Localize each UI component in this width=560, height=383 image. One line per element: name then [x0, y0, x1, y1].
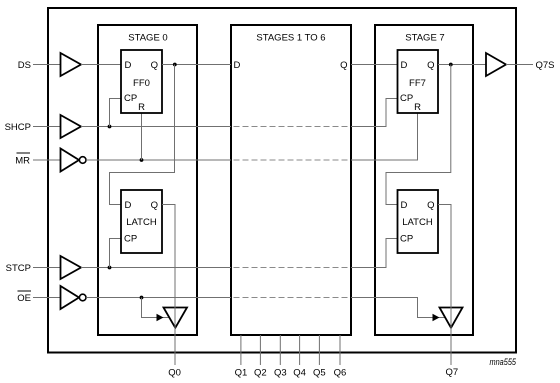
wire FF0 Q to latch0 D [110, 65, 175, 205]
flip-flop FF7 [398, 50, 439, 113]
svg-text:LATCH: LATCH [126, 217, 157, 228]
junction MR to FF0 R [140, 158, 144, 162]
wire Q2 output [259, 335, 261, 365]
svg-text:D: D [125, 60, 132, 71]
svg-text:CP: CP [124, 234, 137, 245]
wire Q3 output [279, 335, 281, 365]
svg-text:DS: DS [18, 60, 31, 71]
wire OE to stage7 output buffer [351, 298, 445, 322]
svg-text:Q: Q [427, 200, 434, 211]
svg-text:MR: MR [15, 156, 30, 167]
svg-text:STAGES 1 TO 6: STAGES 1 TO 6 [256, 33, 325, 44]
wire STCP dashed through stages [234, 267, 351, 269]
junction FF7 Q [449, 63, 453, 67]
svg-text:OE: OE [17, 293, 31, 304]
svg-text:D: D [401, 60, 408, 71]
svg-text:Q2: Q2 [254, 368, 267, 379]
wire Q4 output [299, 335, 301, 365]
wire latch7 Q to Q7 output [438, 205, 451, 366]
wire SHCP to FF0 CP [110, 99, 122, 127]
output buffer stage0 (3-state) [164, 308, 188, 328]
svg-text:mna555: mna555 [490, 357, 517, 368]
latch LATCH7 [398, 190, 439, 253]
svg-text:STAGE 0: STAGE 0 [128, 33, 167, 44]
wire DS buffer to FF0 D [81, 64, 121, 66]
wire Q1 output [240, 335, 242, 365]
outer block boundary [48, 8, 516, 353]
svg-text:Q7S: Q7S [536, 60, 555, 71]
svg-text:D: D [234, 60, 241, 71]
svg-text:R: R [414, 102, 421, 113]
wire FF7 Q to Q7S buffer [438, 64, 486, 66]
wire SHCP lead-in [33, 126, 61, 128]
node OE label [17, 291, 31, 304]
flip-flop FF0 [121, 50, 162, 113]
wire latch0 Q to Q0 output [162, 205, 175, 366]
svg-text:Q1: Q1 [235, 368, 248, 379]
latch LATCH0 [121, 190, 162, 253]
svg-text:CP: CP [400, 234, 413, 245]
svg-text:R: R [138, 102, 145, 113]
junction SHCP to FF0 CP [108, 125, 112, 129]
wire OE lead-in [33, 297, 61, 299]
wire MR dashed through stages [234, 159, 351, 161]
inverter OE input [61, 286, 86, 309]
svg-text:Q0: Q0 [168, 368, 181, 379]
junction OE to stage0 output buffer [140, 296, 144, 300]
svg-text:FF0: FF0 [133, 78, 150, 89]
stages 1 to 6 box [231, 25, 351, 335]
svg-text:STCP: STCP [6, 263, 31, 274]
svg-text:Q: Q [151, 200, 158, 211]
wire STCP to latch7 CP [351, 239, 398, 268]
inverter MR input [61, 149, 86, 172]
svg-text:STAGE 7: STAGE 7 [405, 33, 444, 44]
junction STCP to latch0 CP [108, 266, 112, 270]
buffer STCP input [61, 256, 82, 279]
output buffer stage7 (3-state) [440, 308, 463, 328]
stage 0 box [98, 25, 197, 335]
svg-text:Q: Q [340, 60, 347, 71]
buffer DS input [61, 53, 82, 76]
wire STCP lead-in [33, 267, 61, 269]
svg-text:Q7: Q7 [446, 367, 459, 378]
wire SHCP to FF7 CP [351, 99, 398, 127]
wire OE enable to stage0 output buffer [142, 298, 170, 322]
wire stages Q to FF7 D [351, 64, 398, 66]
junction FF0 Q [173, 63, 177, 67]
wire Q7S lead-out [506, 64, 533, 66]
wire STCP to latch0 CP [110, 239, 122, 268]
wire MR lead-in [33, 159, 61, 161]
wire FF7 Q to latch7 D [386, 65, 451, 205]
wire Q6 output [339, 335, 341, 365]
wire DS lead-in [33, 64, 61, 66]
buffer SHCP input [61, 115, 82, 138]
wire SHCP dashed through stages [234, 126, 351, 128]
svg-text:Q3: Q3 [274, 368, 287, 379]
svg-text:Q5: Q5 [313, 368, 326, 379]
svg-text:Q4: Q4 [293, 368, 306, 379]
wire STCP line to stages box [81, 267, 231, 269]
svg-text:SHCP: SHCP [5, 122, 31, 133]
svg-text:D: D [401, 200, 408, 211]
wire FF0 R to MR line [141, 113, 143, 160]
node MR label [15, 153, 30, 167]
svg-text:D: D [125, 200, 132, 211]
wire Q5 output [318, 335, 320, 365]
wire FF0 Q to stages box D [162, 64, 231, 66]
svg-text:LATCH: LATCH [402, 217, 433, 228]
svg-text:Q: Q [427, 60, 434, 71]
wire OE line to stages box [86, 297, 231, 299]
svg-text:Q6: Q6 [334, 368, 347, 379]
svg-text:FF7: FF7 [409, 78, 426, 89]
svg-text:CP: CP [124, 93, 137, 104]
svg-text:Q: Q [151, 60, 158, 71]
buffer Q7S output [486, 53, 506, 76]
wire OE dashed through stages [234, 297, 351, 299]
stage 7 box [375, 25, 473, 335]
wire SHCP line to stages box [81, 126, 231, 128]
svg-text:CP: CP [400, 93, 413, 104]
wire MR line to stages box [86, 159, 231, 161]
wire MR to FF7 R [351, 113, 418, 160]
